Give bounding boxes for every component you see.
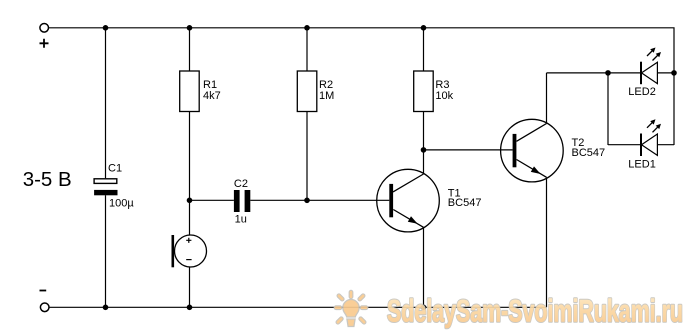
svg-text:C2: C2 xyxy=(234,178,248,190)
svg-text:3-5 В: 3-5 В xyxy=(23,168,72,191)
svg-text:BC547: BC547 xyxy=(448,197,482,209)
svg-text:100µ: 100µ xyxy=(109,198,134,210)
svg-text:SdelaySam-SvoimiRukami.ru: SdelaySam-SvoimiRukami.ru xyxy=(387,292,683,328)
svg-text:LED1: LED1 xyxy=(628,158,656,170)
svg-text:10k: 10k xyxy=(435,90,453,102)
svg-text:1u: 1u xyxy=(235,213,247,225)
svg-text:4k7: 4k7 xyxy=(203,90,221,102)
svg-text:1M: 1M xyxy=(319,90,334,102)
svg-text:C1: C1 xyxy=(108,162,122,174)
svg-text:BC547: BC547 xyxy=(572,147,606,159)
svg-text:LED2: LED2 xyxy=(628,86,656,98)
